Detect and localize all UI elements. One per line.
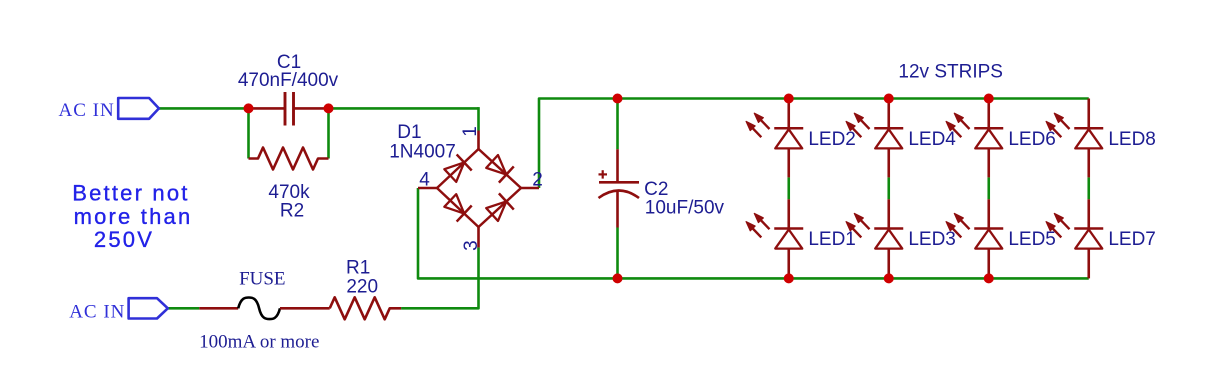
svg-text:more than: more than <box>74 204 193 229</box>
svg-text:D1: D1 <box>397 122 421 143</box>
svg-text:LED3: LED3 <box>908 229 956 250</box>
svg-text:FUSE: FUSE <box>239 269 285 290</box>
svg-text:220: 220 <box>346 277 378 298</box>
svg-text:250V: 250V <box>94 227 154 252</box>
svg-text:LED5: LED5 <box>1008 229 1056 250</box>
svg-text:1: 1 <box>460 126 481 137</box>
svg-text:100mA or more: 100mA or more <box>199 331 319 352</box>
svg-text:LED7: LED7 <box>1108 229 1156 250</box>
svg-text:LED2: LED2 <box>808 129 856 150</box>
svg-text:10uF/50v: 10uF/50v <box>645 197 725 218</box>
svg-text:R2: R2 <box>280 201 304 222</box>
svg-text:LED8: LED8 <box>1108 129 1156 150</box>
svg-text:LED6: LED6 <box>1008 129 1056 150</box>
svg-text:1N4007: 1N4007 <box>389 142 456 163</box>
svg-text:3: 3 <box>461 240 482 251</box>
svg-text:470nF/400v: 470nF/400v <box>238 70 339 91</box>
svg-text:AC IN: AC IN <box>69 302 125 323</box>
svg-text:2: 2 <box>532 170 543 191</box>
svg-text:Better not: Better not <box>72 181 189 206</box>
svg-text:AC IN: AC IN <box>58 100 114 121</box>
svg-text:R1: R1 <box>346 258 370 279</box>
svg-text:12v STRIPS: 12v STRIPS <box>898 62 1003 83</box>
svg-text:4: 4 <box>419 170 430 191</box>
svg-text:LED4: LED4 <box>908 129 956 150</box>
svg-text:LED1: LED1 <box>808 229 856 250</box>
